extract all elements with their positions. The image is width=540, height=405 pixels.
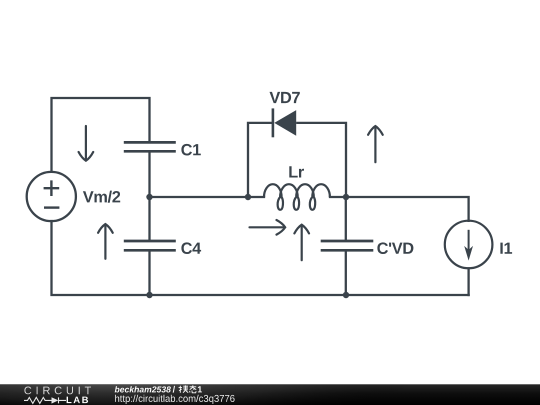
footer title glyph 态 [190,385,197,393]
current arrow up (right of diode) [368,126,383,162]
diode VD7 [273,108,296,137]
wire C'VD top [345,197,347,240]
capacitor C'VD [321,241,374,250]
capacitor C4 [124,241,176,250]
wire C1 bottom to mid node [148,153,150,197]
inductor Lr [264,184,330,210]
junction node (mid-left) [146,194,152,200]
label I1 [500,243,512,254]
wire diode loop right [297,123,346,197]
junction node (inductor right) [343,194,349,200]
footer username beckham2538 [115,386,171,392]
label C1 [181,144,200,156]
label Lr [289,166,304,177]
wire Vm/2 bottom to bottom rail [52,221,150,295]
junction node (diode left leg) [245,194,251,200]
label Vm/2 [83,191,120,203]
current arrow up (near C4) [98,224,113,259]
logo CIRCUIT text [24,387,91,395]
wire diode loop left [248,123,272,197]
wire mid node to C4 top [148,197,150,240]
label C4 [181,242,201,254]
footer title glyph 模 [179,385,189,392]
wire I1 bottom [467,268,469,295]
wire mid rail right (node to I1 branch) [346,197,469,221]
wire bottom rail [150,294,469,296]
label VD7 [270,92,300,103]
wire mid rail left (node to inductor) [150,196,265,198]
footer title digit 1 [198,386,202,392]
current arrow right (below Lr) [250,220,286,235]
junction node (bottom C'VD) [343,292,349,298]
wire inductor right terminal to node [330,196,346,198]
current arrow up (middle, below Lr) [294,225,309,261]
current arrow down (near C1) [79,126,94,161]
footer bar [0,384,540,405]
current source I1 [445,221,493,269]
footer separator [173,386,175,393]
capacitor C1 [124,142,176,151]
wire C4 bottom to bottom rail [148,252,150,295]
wire C'VD bottom to bottom rail [345,252,347,295]
label C'VD [377,242,413,254]
footer url [115,395,234,404]
voltage source Vm/2 [27,172,76,221]
logo LAB text [67,397,89,404]
logo resistor-diode glyph [24,397,66,403]
wire top-left loop (Vm/2 top to C1 top) [52,98,150,171]
junction node (bottom left) [146,292,152,298]
